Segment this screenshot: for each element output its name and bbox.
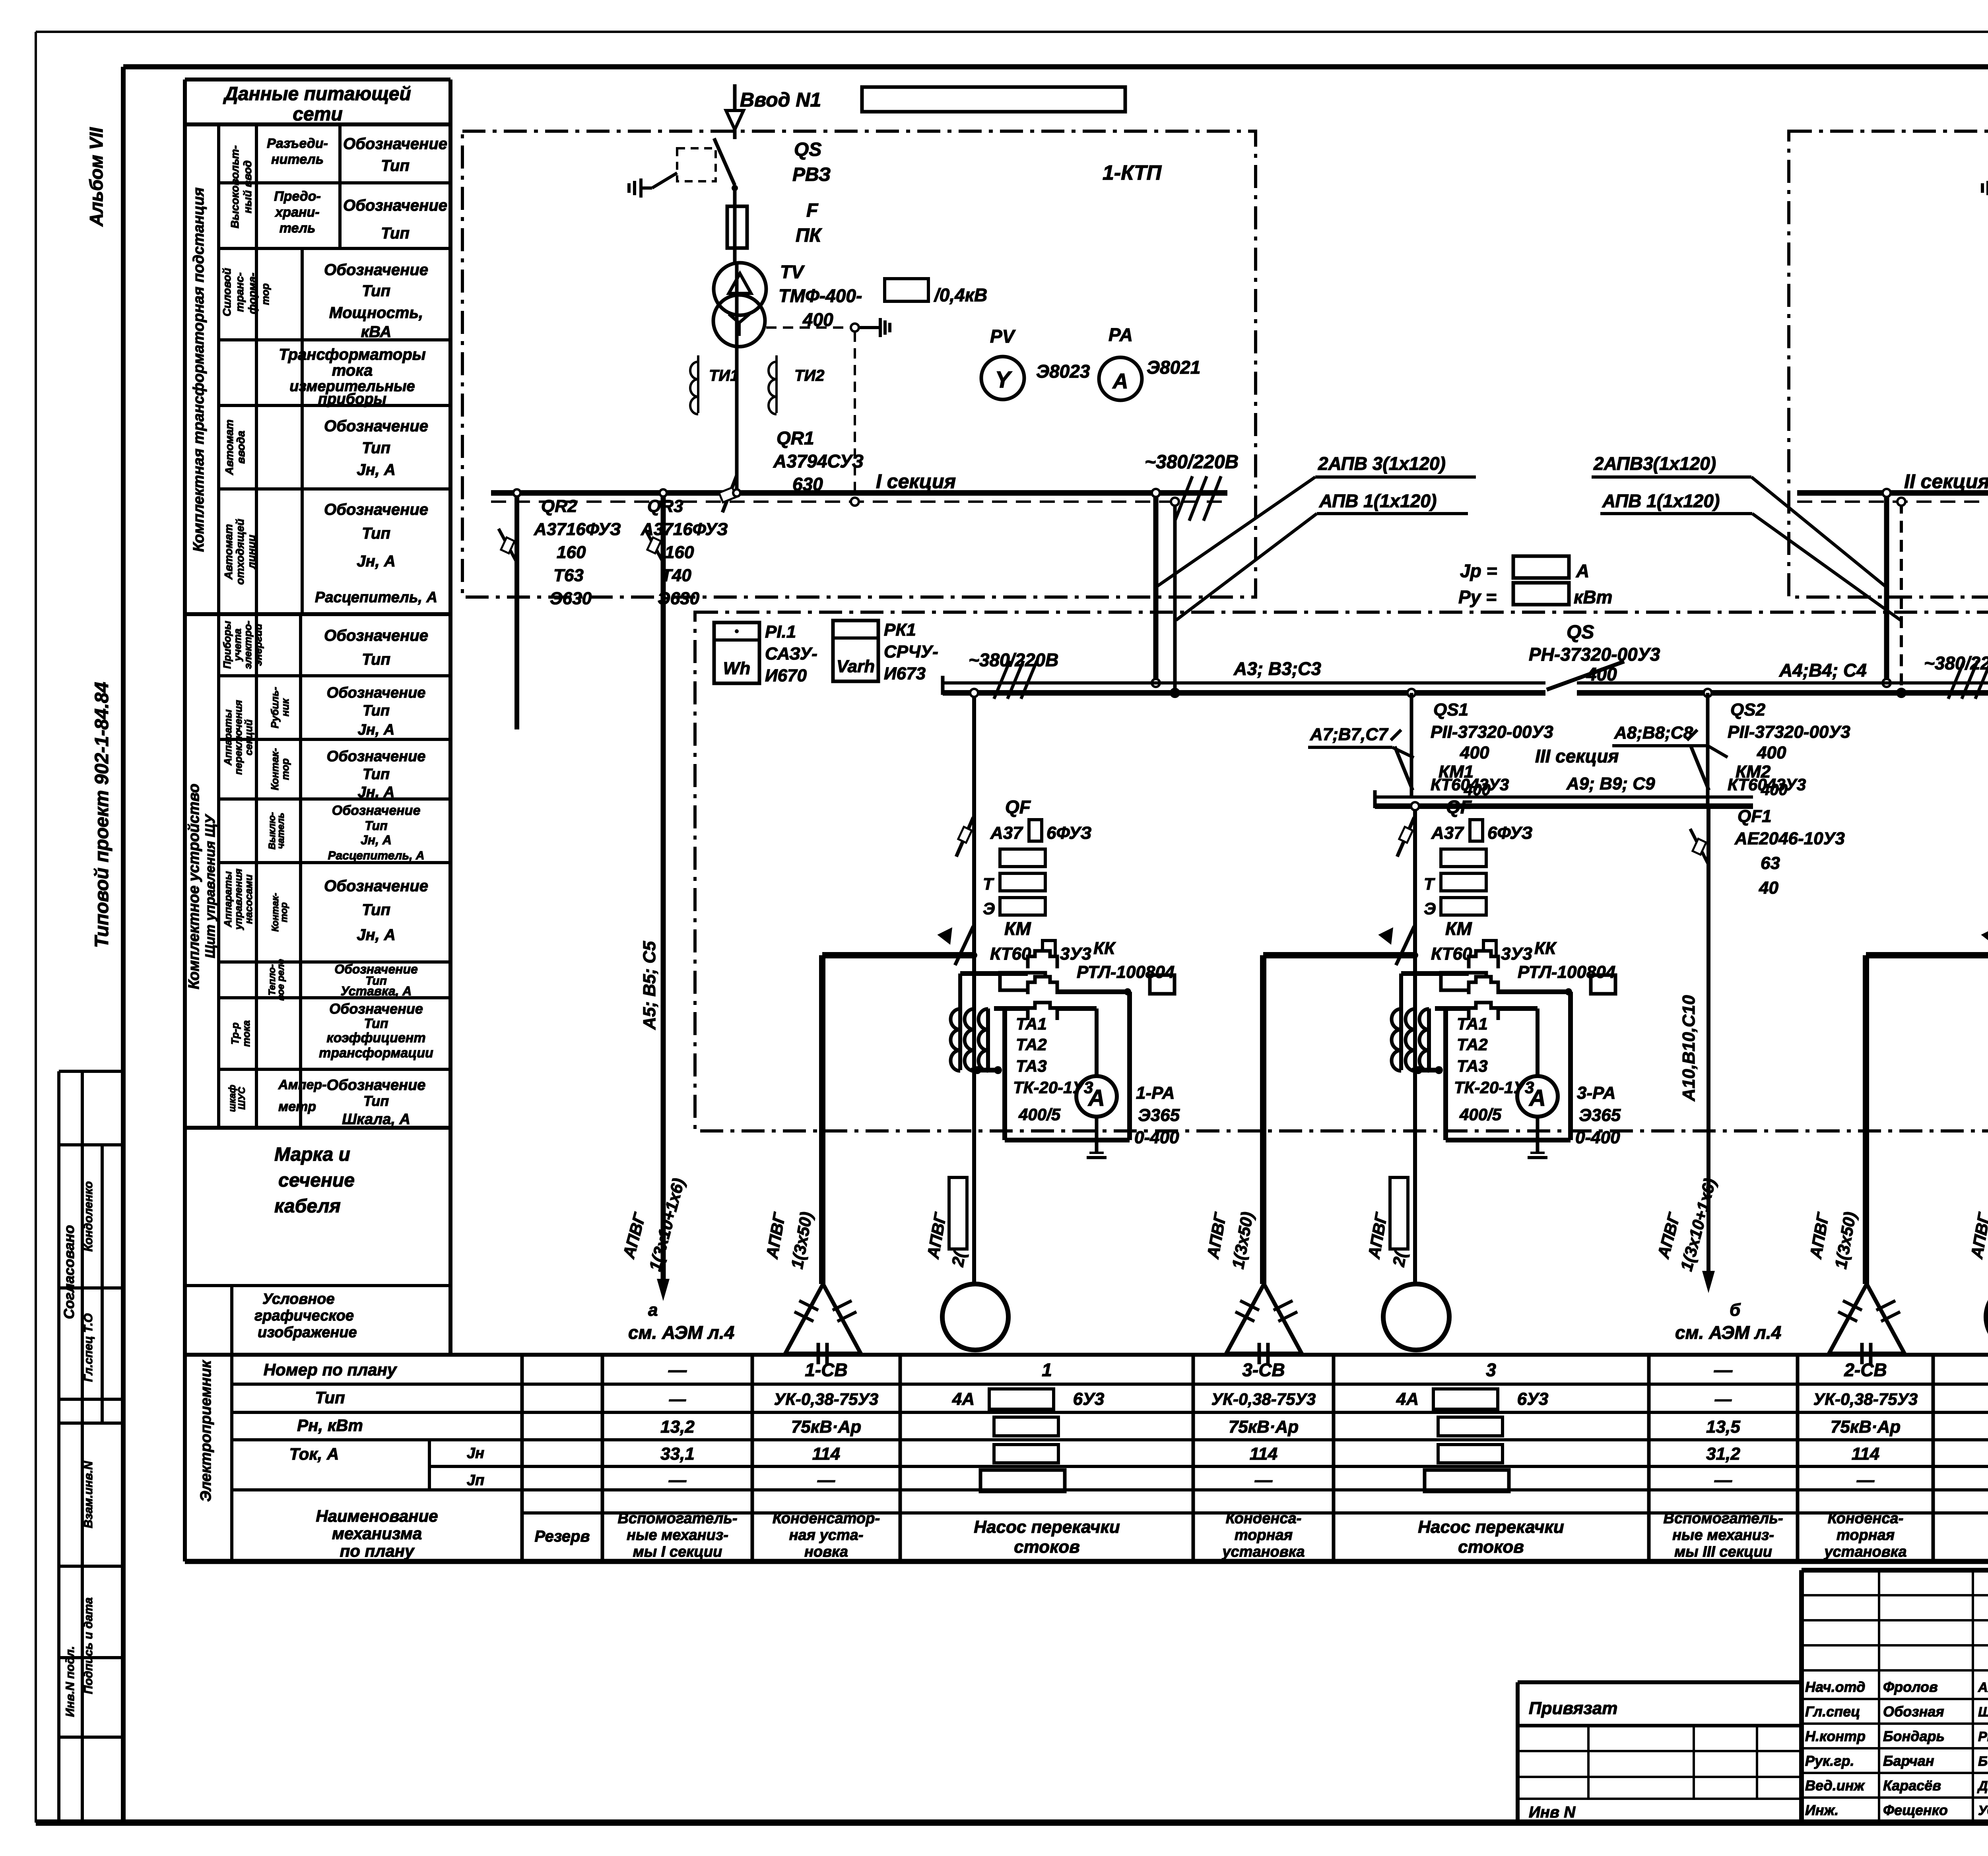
svg-text:КМ: КМ (1004, 918, 1031, 939)
svg-text:тор: тор (279, 902, 289, 922)
svg-text:63: 63 (1761, 853, 1780, 873)
svg-text:75кВ·Ар: 75кВ·Ар (1831, 1417, 1901, 1437)
svg-text:6ФУЗ: 6ФУЗ (1046, 823, 1092, 843)
svg-text:Конденса-: Конденса- (1828, 1510, 1904, 1527)
svg-text:QS: QS (794, 139, 821, 160)
svg-text:РТЛ-100804: РТЛ-100804 (1077, 962, 1175, 982)
svg-text:Рук.гр.: Рук.гр. (1805, 1753, 1854, 1769)
svg-text:Насос перекачки: Насос перекачки (1418, 1517, 1564, 1537)
svg-text:шкаф: шкаф (227, 1085, 238, 1112)
svg-text:храни-: храни- (274, 205, 319, 220)
svg-text:РН-37320-00У3: РН-37320-00У3 (1529, 644, 1660, 665)
svg-text:3: 3 (1486, 1360, 1496, 1380)
svg-text:ный ввод: ный ввод (241, 160, 254, 213)
svg-text:114: 114 (1250, 1444, 1277, 1464)
svg-text:установка: установка (1823, 1544, 1906, 1560)
svg-text:А8;В8;С8: А8;В8;С8 (1614, 723, 1693, 743)
svg-text:QR2: QR2 (541, 496, 577, 516)
svg-text:Расцепитель, А: Расцепитель, А (315, 589, 437, 606)
svg-text:Jп: Jп (467, 1472, 484, 1489)
svg-text:А10,В10,С10: А10,В10,С10 (1679, 995, 1699, 1102)
svg-text:Рн, кВт: Рн, кВт (297, 1416, 363, 1435)
svg-text:1-КТП: 1-КТП (1103, 161, 1162, 184)
svg-text:Э365: Э365 (1579, 1105, 1621, 1125)
svg-text:Н.контр: Н.контр (1805, 1728, 1866, 1744)
svg-text:Бондарь: Бондарь (1883, 1728, 1945, 1744)
svg-text:II секция: II секция (1904, 470, 1988, 493)
svg-text:Обозначение: Обозначение (327, 685, 426, 701)
svg-text:КК: КК (1093, 939, 1116, 958)
svg-text:—: — (668, 1470, 687, 1490)
svg-text:тор: тор (259, 283, 271, 305)
svg-text:Инв.N подл.: Инв.N подл. (64, 1646, 77, 1717)
svg-text:Условное: Условное (262, 1291, 335, 1307)
svg-text:Высоковольт-: Высоковольт- (229, 145, 241, 229)
svg-text:—: — (668, 1360, 687, 1380)
svg-text:31,2: 31,2 (1706, 1444, 1740, 1464)
svg-text:75кВ·Ар: 75кВ·Ар (1229, 1417, 1299, 1437)
svg-text:РР: РР (1978, 1729, 1988, 1744)
svg-text:отходящей: отходящей (234, 519, 246, 585)
svg-text:2-СВ: 2-СВ (1844, 1360, 1887, 1380)
svg-text:Обозначение: Обозначение (329, 1001, 423, 1017)
svg-text:сечение: сечение (278, 1170, 355, 1191)
svg-text:трансформации: трансформации (319, 1045, 433, 1061)
svg-text:Обозначение: Обозначение (327, 1077, 426, 1094)
svg-text:Гл.спец Т.О: Гл.спец Т.О (82, 1313, 95, 1382)
svg-text:транс-: транс- (233, 272, 246, 312)
svg-text:400: 400 (1586, 664, 1617, 685)
svg-text:Обозначение: Обозначение (324, 501, 428, 518)
svg-text:Электроприемник: Электроприемник (198, 1360, 214, 1502)
svg-text:PV: PV (990, 326, 1016, 347)
svg-text:линии: линии (245, 535, 258, 570)
svg-text:Тип: Тип (363, 766, 390, 783)
svg-text:УК-0,38-75У3: УК-0,38-75У3 (1211, 1390, 1316, 1408)
svg-text:Инж.: Инж. (1805, 1802, 1839, 1818)
svg-text:40: 40 (1759, 878, 1778, 898)
svg-text:2АПВ3(1х120): 2АПВ3(1х120) (1593, 453, 1716, 474)
svg-text:400: 400 (1757, 743, 1786, 762)
svg-text:Разъеди-: Разъеди- (267, 136, 328, 151)
svg-text:—: — (817, 1470, 835, 1490)
svg-text:СРЧУ-: СРЧУ- (884, 642, 938, 661)
svg-text:Тип: Тип (362, 439, 390, 457)
svg-text:Фещенко: Фещенко (1883, 1802, 1948, 1818)
svg-text:Обозначение: Обозначение (324, 627, 428, 644)
svg-text:А5; В5; С5: А5; В5; С5 (640, 941, 659, 1030)
svg-text:Ток, А: Ток, А (289, 1445, 339, 1463)
svg-text:АЕ2046-10У3: АЕ2046-10У3 (1734, 829, 1845, 848)
svg-text:коэффициент: коэффициент (326, 1030, 425, 1045)
svg-text:торная: торная (1837, 1527, 1895, 1544)
svg-text:метр: метр (278, 1099, 316, 1114)
svg-text:Инв N: Инв N (1529, 1804, 1576, 1821)
svg-text:Тип: Тип (362, 282, 390, 300)
svg-text:Э630: Э630 (550, 589, 592, 608)
svg-text:Резерв: Резерв (534, 1528, 590, 1545)
svg-text:Данные питающей: Данные питающей (223, 83, 411, 105)
svg-text:160: 160 (665, 543, 694, 562)
svg-text:Согласовано: Согласовано (61, 1225, 77, 1319)
svg-text:Номер по плану: Номер по плану (264, 1360, 398, 1379)
svg-text:РК1: РК1 (884, 620, 916, 640)
svg-text:Тип: Тип (362, 651, 390, 668)
svg-text:И673: И673 (884, 664, 926, 683)
svg-text:кВА: кВА (361, 323, 392, 341)
svg-text:РII-37320-00У3: РII-37320-00У3 (1728, 722, 1850, 742)
svg-text:Обозначение: Обозначение (324, 877, 428, 895)
svg-text:ные механиз-: ные механиз- (1672, 1527, 1774, 1544)
svg-text:Подпись и дата: Подпись и дата (82, 1597, 95, 1694)
svg-text:Вспомогатель-: Вспомогатель- (1664, 1510, 1783, 1527)
svg-text:Автомат: Автомат (222, 524, 235, 580)
svg-text:Э8021: Э8021 (1147, 357, 1200, 378)
svg-text:А7;В7,С7: А7;В7,С7 (1310, 725, 1389, 744)
svg-text:~380/220В: ~380/220В (1145, 452, 1239, 473)
svg-text:Обозначение: Обозначение (327, 748, 426, 765)
svg-text:114: 114 (1852, 1444, 1879, 1464)
svg-text:РА: РА (1109, 324, 1133, 345)
svg-text:Обозная: Обозная (1883, 1703, 1944, 1720)
svg-text:Jн, А: Jн, А (361, 833, 392, 847)
svg-text:Обозначение: Обозначение (324, 261, 428, 279)
svg-text:3-РА: 3-РА (1577, 1083, 1615, 1103)
svg-text:Jн: Jн (467, 1445, 484, 1462)
svg-text:А4;В4; С4: А4;В4; С4 (1779, 660, 1867, 681)
svg-text:~380/220В: ~380/220В (1924, 653, 1988, 673)
svg-text:Э365: Э365 (1138, 1105, 1180, 1125)
svg-text:TV: TV (780, 262, 805, 282)
svg-text:Расцепитель, А: Расцепитель, А (328, 849, 424, 862)
svg-text:Кондоленко: Кондоленко (82, 1181, 95, 1251)
svg-text:0-400: 0-400 (1575, 1128, 1620, 1147)
svg-text:3-СВ: 3-СВ (1242, 1360, 1285, 1380)
svg-text:стоков: стоков (1458, 1537, 1524, 1557)
svg-text:приборы: приборы (318, 391, 386, 407)
svg-text:АПВ 1(1х120): АПВ 1(1х120) (1319, 491, 1437, 511)
svg-text:А: А (1087, 1085, 1105, 1111)
svg-text:А3716ФУЗ: А3716ФУЗ (641, 520, 728, 539)
svg-text:А9; В9; С9: А9; В9; С9 (1566, 774, 1655, 793)
svg-text:ТИ2: ТИ2 (794, 367, 824, 384)
svg-text:Обозначение: Обозначение (343, 135, 447, 153)
svg-text:0-400: 0-400 (1134, 1128, 1179, 1147)
svg-text:по плану: по плану (340, 1542, 415, 1560)
svg-text:графическое: графическое (254, 1307, 354, 1324)
svg-text:—: — (1714, 1360, 1733, 1380)
svg-text:Убещ: Убещ (1978, 1803, 1988, 1818)
svg-text:Фролов: Фролов (1883, 1679, 1938, 1695)
svg-text:стоков: стоков (1014, 1537, 1080, 1557)
svg-text:Jн, А: Jн, А (358, 784, 395, 801)
svg-text:I секция: I секция (876, 470, 956, 493)
svg-text:Э8023: Э8023 (1036, 361, 1090, 382)
svg-text:Тип: Тип (381, 225, 410, 242)
svg-text:Бин: Бин (1978, 1754, 1988, 1769)
svg-text:75кВ·Ар: 75кВ·Ар (791, 1417, 861, 1437)
svg-text:Э630: Э630 (658, 589, 700, 608)
svg-text:Шкала, А: Шкала, А (342, 1111, 410, 1128)
svg-text:400: 400 (1464, 781, 1491, 799)
svg-text:6У3: 6У3 (1517, 1389, 1549, 1409)
svg-text:Конденса-: Конденса- (1226, 1510, 1302, 1527)
svg-text:мы I секции: мы I секции (633, 1544, 722, 1560)
svg-text:/0,4кВ: /0,4кВ (934, 285, 987, 305)
svg-text:ввода: ввода (235, 431, 247, 464)
svg-text:QS: QS (1567, 622, 1594, 643)
svg-text:Т63: Т63 (553, 566, 584, 585)
svg-text:механизма: механизма (332, 1524, 422, 1543)
svg-text:Тип: Тип (363, 1093, 389, 1109)
svg-text:А3716ФУЗ: А3716ФУЗ (534, 520, 621, 539)
svg-text:ТМФ-400-: ТМФ-400- (779, 285, 862, 306)
svg-text:кабеля: кабеля (274, 1196, 341, 1217)
svg-text:Тип: Тип (364, 1016, 388, 1031)
svg-text:ная уста-: ная уста- (789, 1527, 864, 1544)
svg-text:QR1: QR1 (777, 428, 814, 448)
svg-text:Обозначение: Обозначение (343, 197, 447, 214)
svg-text:Мощность,: Мощность, (329, 304, 423, 322)
svg-text:Комплектная трансформаторная п: Комплектная трансформаторная подстанция (190, 187, 207, 552)
svg-text:Jн, А: Jн, А (357, 461, 396, 479)
svg-text:6У3: 6У3 (1073, 1389, 1105, 1409)
svg-text:ШУС: ШУС (237, 1087, 247, 1110)
svg-text:Y: Y (995, 367, 1013, 393)
svg-text:630: 630 (792, 474, 823, 495)
svg-text:Т: Т (983, 875, 994, 893)
svg-text:Тип: Тип (381, 157, 410, 175)
svg-text:Ввод N1: Ввод N1 (740, 89, 821, 111)
svg-text:мы III секции: мы III секции (1674, 1544, 1772, 1560)
svg-text:Тип: Тип (362, 901, 390, 919)
svg-text:400: 400 (1761, 781, 1788, 799)
svg-text:33,1: 33,1 (660, 1444, 695, 1464)
svg-text:Тип: Тип (362, 525, 390, 542)
svg-text:ТИ1: ТИ1 (709, 367, 739, 384)
svg-text:А: А (1576, 560, 1589, 581)
svg-text:а: а (648, 1300, 658, 1320)
svg-text:секций: секций (243, 720, 254, 756)
svg-text:кВт: кВт (1574, 587, 1612, 607)
svg-text:торная: торная (1235, 1527, 1293, 1544)
svg-text:4А: 4А (952, 1389, 975, 1409)
svg-text:Комплектное устройство: Комплектное устройство (186, 784, 202, 989)
svg-text:Дп: Дп (1977, 1778, 1988, 1794)
svg-text:Альбом VII: Альбом VII (86, 127, 107, 227)
svg-text:Нач.отд: Нач.отд (1805, 1679, 1865, 1695)
svg-text:Барчан: Барчан (1883, 1753, 1934, 1769)
svg-text:И670: И670 (765, 666, 807, 685)
svg-text:Ампер-: Ампер- (278, 1077, 326, 1092)
svg-text:тель: тель (280, 221, 315, 236)
svg-text:тор: тор (279, 758, 291, 780)
svg-text:ТА2: ТА2 (1016, 1035, 1047, 1054)
svg-text:3У3: 3У3 (1060, 944, 1091, 964)
svg-text:Марка и: Марка и (274, 1144, 350, 1165)
svg-text:400/5: 400/5 (1018, 1105, 1061, 1124)
svg-text:Jн, А: Jн, А (357, 553, 396, 570)
svg-text:160: 160 (557, 543, 586, 562)
svg-text:Обозначение: Обозначение (324, 417, 428, 435)
svg-text:тока: тока (240, 1020, 252, 1047)
svg-text:Автомат: Автомат (223, 419, 235, 475)
svg-text:сети: сети (293, 104, 342, 125)
svg-text:насосами: насосами (243, 875, 254, 924)
svg-text:ТА3: ТА3 (1016, 1057, 1047, 1075)
svg-text:Jр =: Jр = (1460, 560, 1497, 581)
svg-text:Тр-р: Тр-р (229, 1022, 241, 1045)
svg-text:III секция: III секция (1535, 746, 1619, 766)
svg-text:Jн, А: Jн, А (357, 926, 396, 944)
svg-text:Обозначение: Обозначение (332, 803, 421, 818)
svg-text:Трансформаторы: Трансформаторы (279, 346, 426, 363)
svg-text:Ру =: Ру = (1458, 587, 1497, 607)
svg-text:Привязат: Привязат (1529, 1699, 1617, 1718)
svg-text:чатель: чатель (276, 813, 286, 849)
svg-text:QS1: QS1 (1433, 700, 1468, 720)
svg-text:QS2: QS2 (1730, 700, 1766, 720)
svg-text:ТА1: ТА1 (1016, 1014, 1047, 1033)
svg-text:~380/220В: ~380/220В (969, 650, 1058, 670)
svg-text:изображение: изображение (258, 1324, 357, 1341)
svg-text:А3; В3;С3: А3; В3;С3 (1233, 658, 1321, 679)
svg-text:—: — (1856, 1470, 1875, 1490)
svg-text:Насос перекачки: Насос перекачки (974, 1517, 1120, 1537)
svg-text:Тип: Тип (363, 702, 390, 719)
svg-text:—: — (1714, 1470, 1732, 1490)
svg-text:Силовой: Силовой (221, 268, 233, 316)
svg-text:400: 400 (1460, 743, 1489, 762)
svg-text:QF1: QF1 (1738, 807, 1772, 826)
svg-text:Уставка, А: Уставка, А (341, 984, 412, 998)
svg-text:Вспомогатель-: Вспомогатель- (618, 1510, 738, 1527)
svg-text:тока: тока (332, 362, 373, 379)
svg-text:Карасёв: Карасёв (1883, 1777, 1941, 1794)
svg-text:1-РА: 1-РА (1136, 1083, 1175, 1103)
svg-text:F: F (806, 200, 819, 221)
svg-text:ник: ник (279, 698, 291, 717)
svg-text:ПК: ПК (796, 225, 823, 246)
svg-text:Щит управления ЩУ: Щит управления ЩУ (203, 814, 218, 958)
svg-text:—: — (1254, 1470, 1273, 1490)
svg-text:Шрб: Шрб (1978, 1705, 1988, 1720)
svg-text:Наименование: Наименование (316, 1507, 438, 1525)
svg-text:Т40: Т40 (661, 566, 691, 585)
svg-text:Типовой проект 902-1-84.84: Типовой проект 902-1-84.84 (91, 682, 113, 948)
svg-text:А3794СУЗ: А3794СУЗ (773, 451, 864, 471)
svg-text:см. АЭМ л.4: см. АЭМ л.4 (628, 1322, 734, 1343)
svg-text:Э: Э (983, 899, 995, 918)
svg-text:РII-37320-00У3: РII-37320-00У3 (1431, 722, 1553, 742)
svg-text:2АПВ 3(1х120): 2АПВ 3(1х120) (1318, 453, 1446, 474)
svg-text:Предо-: Предо- (274, 189, 321, 204)
svg-text:Гл.спец: Гл.спец (1805, 1703, 1860, 1720)
svg-text:АЯ: АЯ (1978, 1680, 1988, 1695)
svg-text:1: 1 (1042, 1360, 1052, 1380)
svg-text:QF: QF (1005, 797, 1031, 817)
svg-text:РВЗ: РВЗ (792, 164, 831, 185)
svg-text:вое реле: вое реле (276, 959, 286, 1001)
svg-text:Wh: Wh (723, 659, 750, 678)
svg-text:АПВ 1(1х120): АПВ 1(1х120) (1602, 491, 1720, 511)
svg-text:ные механиз-: ные механиз- (627, 1527, 728, 1544)
svg-text:А: А (1112, 369, 1128, 393)
svg-text:Взам.инв.N: Взам.инв.N (82, 1460, 95, 1528)
svg-text:новка: новка (804, 1544, 848, 1560)
svg-text:—: — (669, 1390, 686, 1408)
svg-text:б: б (1730, 1300, 1741, 1320)
svg-text:УК-0,38-75У3: УК-0,38-75У3 (774, 1390, 879, 1408)
svg-text:Тип: Тип (315, 1388, 345, 1407)
svg-text:Тип: Тип (365, 818, 387, 833)
svg-text:установка: установка (1221, 1544, 1305, 1560)
svg-text:4А: 4А (1396, 1389, 1419, 1409)
svg-text:А37: А37 (990, 823, 1023, 843)
svg-text:САЗУ-: САЗУ- (765, 644, 817, 663)
svg-text:Jн, А: Jн, А (358, 721, 395, 738)
svg-text:Конденсатор-: Конденсатор- (773, 1510, 880, 1527)
svg-text:—: — (1714, 1390, 1732, 1408)
svg-text:УК-0,38-75У3: УК-0,38-75У3 (1813, 1390, 1918, 1408)
svg-text:13,5: 13,5 (1706, 1417, 1740, 1437)
svg-text:РI.1: РI.1 (765, 622, 796, 642)
svg-text:Varh: Varh (837, 657, 875, 676)
svg-text:нитель: нитель (271, 152, 324, 167)
svg-text:энергии: энергии (252, 624, 264, 666)
svg-text:КТ60: КТ60 (990, 944, 1031, 964)
svg-text:114: 114 (812, 1444, 840, 1464)
svg-text:Вед.инж: Вед.инж (1805, 1777, 1865, 1794)
svg-text:QR3: QR3 (647, 496, 683, 516)
svg-text:форма-: форма- (246, 273, 258, 314)
svg-text:см. АЭМ л.4: см. АЭМ л.4 (1675, 1322, 1781, 1343)
svg-text:13,2: 13,2 (660, 1417, 695, 1437)
